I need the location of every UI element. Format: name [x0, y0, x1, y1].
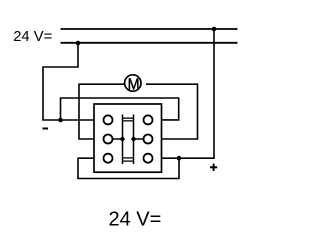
svg-text:24 V=: 24 V= — [13, 29, 52, 45]
svg-text:M: M — [128, 76, 140, 93]
svg-text:24 V=: 24 V= — [109, 208, 162, 230]
